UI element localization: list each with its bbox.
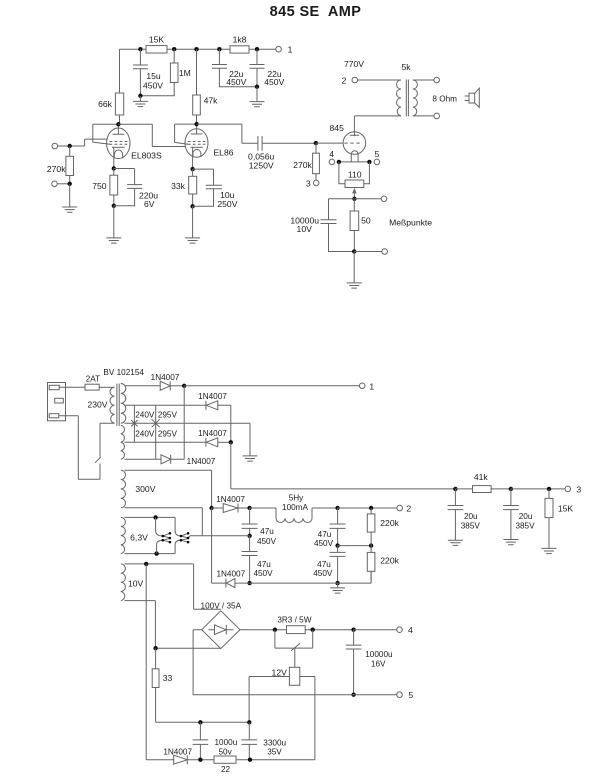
node 10000u top xyxy=(351,628,355,632)
svg-text:22: 22 xyxy=(221,765,231,774)
resistor 41k xyxy=(455,472,511,492)
svg-text:3: 3 xyxy=(576,484,581,494)
ground 20u a xyxy=(448,540,463,545)
svg-text:33: 33 xyxy=(163,673,173,683)
node 47u bottom right xyxy=(335,581,339,585)
svg-text:35V: 35V xyxy=(267,748,282,757)
wire 10V top lead to bridge xyxy=(125,564,221,609)
svg-text:6V: 6V xyxy=(144,199,155,209)
wire 845 filament row xyxy=(339,161,370,163)
svg-text:15K: 15K xyxy=(558,504,574,514)
terminal 5 (psu) xyxy=(397,690,414,700)
wire mid right row xyxy=(338,545,372,547)
wire to terminal 4 xyxy=(354,629,397,631)
ground under 22u xyxy=(250,87,265,107)
svg-text:8 Ohm: 8 Ohm xyxy=(432,95,457,104)
terminal measure a xyxy=(381,196,387,202)
node 6.3V top xyxy=(153,515,157,519)
terminal speaker top xyxy=(434,77,440,83)
node input xyxy=(68,144,72,148)
node 220k top xyxy=(369,506,373,510)
wire HV2 bottom row D xyxy=(125,458,162,460)
svg-text:12V: 12V xyxy=(272,667,288,677)
node 20u b top xyxy=(509,487,513,491)
resistor 3R3/5W xyxy=(277,615,353,633)
svg-text:1N4007: 1N4007 xyxy=(151,373,180,382)
terminal 2 (top) xyxy=(342,59,365,85)
capacitor 20u 385V a xyxy=(448,489,481,540)
svg-text:BV 102154: BV 102154 xyxy=(103,368,144,377)
potentiometer 110 xyxy=(339,162,370,199)
svg-text:100mA: 100mA xyxy=(282,503,308,512)
svg-text:385V: 385V xyxy=(461,522,481,531)
svg-text:220k: 220k xyxy=(380,518,399,528)
node 3R3 right xyxy=(311,628,315,632)
wire D1 to node xyxy=(170,385,184,387)
svg-text:EL803S: EL803S xyxy=(131,151,162,161)
node 22 out xyxy=(248,758,252,762)
svg-text:50: 50 xyxy=(361,215,371,225)
wire contact to coil xyxy=(294,648,296,667)
svg-text:1N4007: 1N4007 xyxy=(198,392,227,401)
svg-text:1: 1 xyxy=(288,45,293,55)
wire D5 to choke xyxy=(238,507,250,509)
svg-text:4: 4 xyxy=(329,149,334,159)
node pin 5 xyxy=(367,160,371,164)
node 15K top xyxy=(547,487,551,491)
terminal 3 (top) xyxy=(306,178,319,188)
wire EL86 anode to coupling cap xyxy=(197,124,258,143)
svg-text:47u: 47u xyxy=(257,560,271,569)
resistor 1k8 xyxy=(230,35,249,54)
wire 6.3V top lead xyxy=(125,516,176,518)
svg-text:2AT: 2AT xyxy=(86,374,100,383)
svg-text:EL86: EL86 xyxy=(213,147,233,157)
svg-text:5k: 5k xyxy=(401,62,411,72)
wire D3 to node xyxy=(218,441,231,443)
tap interconnect verticals xyxy=(134,405,155,459)
bridge rectifier 100V/35A xyxy=(201,601,242,648)
crossing mark x2 xyxy=(152,419,160,427)
transformer core xyxy=(117,384,119,426)
ground under 33k xyxy=(185,206,200,243)
capacitor 22u 450V b xyxy=(250,49,285,87)
wire choke out to terminal 2 xyxy=(338,507,397,509)
node choke in xyxy=(247,506,251,510)
wire row C xyxy=(125,441,206,443)
svg-text:110: 110 xyxy=(348,169,362,179)
svg-text:750: 750 xyxy=(92,181,107,191)
wire to 15K xyxy=(511,488,565,490)
wire 10V bottom lead xyxy=(125,601,156,649)
svg-text:33k: 33k xyxy=(171,181,186,191)
diode D6 1N4007 xyxy=(216,569,245,587)
capacitor 10u 250V xyxy=(193,169,238,209)
svg-text:10000u: 10000u xyxy=(365,650,393,659)
heater link cluster left xyxy=(156,517,172,553)
heater link cluster right xyxy=(175,517,190,553)
ground under 50 xyxy=(347,252,362,289)
wire bridge plus to 3R3 xyxy=(240,629,287,631)
wire negative long vertical xyxy=(146,564,174,760)
wire OPT primary bottom to 845 anode xyxy=(354,115,401,117)
svg-text:845: 845 xyxy=(330,123,345,133)
svg-text:5: 5 xyxy=(408,690,413,700)
svg-text:15u: 15u xyxy=(146,71,161,81)
resistor 220k a xyxy=(367,508,399,546)
mains plug xyxy=(48,383,66,421)
diode D3 1N4007 xyxy=(198,429,227,447)
node 3300u top xyxy=(247,720,251,724)
node pin 4 xyxy=(337,160,341,164)
terminal 3 (psu) xyxy=(565,484,581,494)
wire B+ rail top xyxy=(120,48,276,50)
svg-text:270k: 270k xyxy=(293,160,312,170)
svg-text:47u: 47u xyxy=(317,560,331,569)
svg-text:1N4007: 1N4007 xyxy=(216,495,245,504)
resistor 47k xyxy=(193,49,218,124)
svg-text:1k8: 1k8 xyxy=(233,35,247,45)
relay coil 12V xyxy=(272,667,300,685)
terminal 5 (top) xyxy=(374,149,380,165)
transformer winding HV2 xyxy=(121,425,125,459)
capacitor 47u 450V d xyxy=(313,546,345,584)
node filter mid right xyxy=(335,543,339,547)
wire D7 to 22 xyxy=(187,759,214,761)
capacitor 1000u 50v xyxy=(193,722,238,759)
transformer winding 6.3V xyxy=(121,517,148,553)
ground 20u b xyxy=(503,540,518,545)
wire 66k to anode node xyxy=(118,115,119,124)
svg-text:16V: 16V xyxy=(371,660,386,669)
capacitor 15u 450V xyxy=(133,49,163,96)
wire 47u bottom row xyxy=(235,571,371,583)
diode D4 1N4007 xyxy=(161,455,216,466)
terminal 1 (top) xyxy=(276,45,293,55)
svg-text:295V: 295V xyxy=(158,429,178,438)
resistor 33k xyxy=(171,169,197,206)
svg-text:450V: 450V xyxy=(313,569,333,578)
ground HV center xyxy=(243,456,258,461)
node main B+ xyxy=(209,506,213,510)
node 22u-gnd xyxy=(255,85,259,89)
wire 300V bottom to heater bus xyxy=(125,508,203,536)
wire terminal2 to OPT xyxy=(358,79,401,81)
capacitor 47u 450V b xyxy=(242,536,273,583)
capacitor 220u 6V xyxy=(114,169,158,210)
node 845 grid xyxy=(314,141,318,145)
svg-text:10V: 10V xyxy=(128,578,144,588)
wire node to D5 xyxy=(212,507,224,509)
svg-text:41k: 41k xyxy=(474,472,489,482)
transformer OPT secondary xyxy=(401,62,433,116)
capacitor 47u 450V c xyxy=(314,508,346,548)
node 33 top xyxy=(153,646,157,650)
node input-gnd xyxy=(68,182,72,186)
svg-text:1N4007: 1N4007 xyxy=(198,429,227,438)
svg-text:450V: 450V xyxy=(253,569,273,578)
resistor 750 xyxy=(92,169,117,206)
resistor 1M xyxy=(140,49,190,96)
svg-text:1250V: 1250V xyxy=(249,160,274,170)
capacitor 10000u 16V xyxy=(346,630,393,695)
terminal measure b xyxy=(382,249,388,255)
resistor 270k input xyxy=(47,146,74,184)
resistor 220k b xyxy=(367,546,399,584)
svg-text:250V: 250V xyxy=(217,199,237,209)
transformer OPT core xyxy=(406,80,408,117)
svg-text:770V: 770V xyxy=(344,59,364,69)
node EL86 anode xyxy=(194,122,198,126)
svg-text:4: 4 xyxy=(408,625,413,635)
wire D2 to vertical xyxy=(218,405,231,442)
capacitor 47u 450V a xyxy=(242,508,277,546)
tube EL803S xyxy=(93,124,162,168)
capacitor 22u 450V a xyxy=(212,49,257,87)
node EL86 cathode xyxy=(190,167,194,171)
svg-text:3R3 / 5W: 3R3 / 5W xyxy=(277,615,311,624)
choke 5Hy 100mA xyxy=(250,494,338,523)
svg-text:2: 2 xyxy=(342,75,347,85)
node 50 bottom xyxy=(352,249,356,253)
resistor 22 xyxy=(214,756,315,774)
node 1000u top xyxy=(198,720,202,724)
transformer winding 300V xyxy=(121,470,156,508)
node filter mid left xyxy=(247,534,251,538)
svg-text:66k: 66k xyxy=(98,99,113,109)
node 15u-1M-gnd xyxy=(138,94,142,98)
svg-text:100V / 35A: 100V / 35A xyxy=(201,601,242,610)
terminal input bottom xyxy=(52,181,70,187)
ground under 15u xyxy=(133,96,148,107)
svg-text:47u: 47u xyxy=(260,527,274,536)
wire bridge minus down xyxy=(193,630,202,695)
wire switch to plug xyxy=(59,416,100,480)
wire input to grid xyxy=(58,139,112,146)
node rail-22u-b xyxy=(255,47,259,51)
svg-text:3: 3 xyxy=(306,178,311,188)
svg-text:3300u: 3300u xyxy=(263,738,286,747)
wire node D3 down to bias row xyxy=(231,442,456,489)
wire terminal 5 row xyxy=(193,694,397,696)
resistor 15K psu xyxy=(545,489,573,549)
wire plug to fuse xyxy=(59,386,85,388)
capacitor 0,056u 1250V xyxy=(248,136,316,170)
svg-text:6,3V: 6,3V xyxy=(130,532,148,542)
terminal speaker bottom xyxy=(434,113,440,119)
svg-text:1N4007: 1N4007 xyxy=(216,569,245,578)
svg-text:1N4007: 1N4007 xyxy=(163,747,192,756)
wire coil right lead xyxy=(300,677,315,760)
terminal 4 (top) xyxy=(329,149,335,165)
resistor 33 xyxy=(152,648,249,722)
diode D1 1N4007 xyxy=(151,373,180,390)
tube EL86 xyxy=(175,124,234,169)
crossing mark x1 xyxy=(131,420,137,426)
node cathode sense xyxy=(352,197,356,201)
node choke out xyxy=(335,506,339,510)
resistor 15K xyxy=(146,35,167,54)
svg-text:220k: 220k xyxy=(380,556,399,566)
node D7 out xyxy=(198,758,202,762)
svg-text:450V: 450V xyxy=(226,77,246,87)
svg-text:240V: 240V xyxy=(135,429,155,438)
wire heater bus row xyxy=(190,535,250,537)
svg-text:270k: 270k xyxy=(47,164,66,174)
svg-text:10V: 10V xyxy=(297,224,313,234)
node 33k bottom xyxy=(190,204,194,208)
svg-text:20u: 20u xyxy=(464,512,478,521)
node D1 cathode xyxy=(182,384,186,388)
resistor 50 xyxy=(350,199,371,252)
svg-text:15K: 15K xyxy=(149,35,165,45)
diode D5 1N4007 xyxy=(216,495,245,513)
ground under 750 xyxy=(106,206,121,243)
capacitor 3300u 35V xyxy=(242,722,287,759)
svg-text:845 SE AMP: 845 SE AMP xyxy=(270,4,362,20)
node rail-22u-a xyxy=(217,47,221,51)
svg-text:450V: 450V xyxy=(143,81,163,91)
node 3R3 left xyxy=(273,628,277,632)
terminal input top xyxy=(52,143,58,149)
svg-text:1N4007: 1N4007 xyxy=(187,457,216,466)
transformer winding HV1 xyxy=(121,384,126,424)
svg-text:1M: 1M xyxy=(179,68,191,78)
fuse 2AT xyxy=(85,374,100,390)
svg-text:5: 5 xyxy=(375,149,380,159)
node EL803S cathode xyxy=(112,166,116,170)
node EL803S anode xyxy=(116,122,120,126)
node rail-47k xyxy=(194,47,198,51)
transformer primary 230V xyxy=(110,387,115,423)
terminal 1 (psu) xyxy=(359,381,374,391)
svg-text:2: 2 xyxy=(406,503,411,513)
svg-text:1000u: 1000u xyxy=(215,738,238,747)
wire fuse to primary xyxy=(99,386,114,388)
wire to 845 grid xyxy=(316,142,346,144)
wire 300V top to rectifier node xyxy=(125,470,212,508)
transformer OPT primary xyxy=(397,80,402,116)
svg-text:230V: 230V xyxy=(87,400,107,410)
node 750 bottom xyxy=(112,204,116,208)
wire to measure terminal a xyxy=(354,198,381,200)
terminal 4 (psu) xyxy=(397,625,413,635)
resistor 66k xyxy=(98,93,124,115)
node bias row left xyxy=(453,487,457,491)
svg-text:450V: 450V xyxy=(264,77,284,87)
tube 845 xyxy=(330,116,366,162)
relay contact bypass xyxy=(275,630,313,651)
node 47u bottom left xyxy=(247,581,251,585)
wire B+ down to D6 xyxy=(212,508,226,583)
svg-text:300V: 300V xyxy=(135,484,155,494)
node 10V top xyxy=(144,562,148,566)
capacitor 20u 385V b xyxy=(503,489,535,540)
node 220k mid xyxy=(369,543,373,547)
svg-text:50v: 50v xyxy=(218,747,232,756)
capacitor 10000u 10V xyxy=(290,199,354,252)
svg-text:47k: 47k xyxy=(204,96,219,106)
wire 240V row B to ground stub xyxy=(125,423,251,456)
wire to measure terminal b xyxy=(354,251,382,253)
node 6.3V bottom xyxy=(154,551,158,555)
resistor 270k 845 grid leak xyxy=(293,143,319,180)
wire 6.3V bottom lead xyxy=(125,553,176,555)
svg-text:5Hy: 5Hy xyxy=(289,494,304,503)
ground under input xyxy=(62,184,77,212)
wire coil left lead xyxy=(249,677,289,723)
ground filter xyxy=(330,583,345,593)
wire primary bottom to switch xyxy=(100,423,115,456)
ground 15K xyxy=(542,548,557,553)
wire 295V tap row A xyxy=(125,404,206,406)
node rail-1M xyxy=(172,47,176,51)
svg-text:450V: 450V xyxy=(257,537,277,546)
node 10000u bottom xyxy=(351,693,355,697)
wire bridge bottom AC row xyxy=(156,647,221,649)
wire 66k drop xyxy=(119,49,121,93)
svg-text:295V: 295V xyxy=(158,410,178,419)
diode D7 1N4007 xyxy=(163,747,192,764)
svg-text:20u: 20u xyxy=(519,512,533,521)
switch mains xyxy=(95,457,101,480)
wire rail to PSU terminal 1 xyxy=(184,385,359,387)
transformer winding 10V xyxy=(121,564,144,601)
svg-text:1: 1 xyxy=(369,381,374,391)
wire EL803S anode to EL86 grid xyxy=(118,124,190,146)
wire HV1 top lead xyxy=(125,385,161,387)
svg-text:450V: 450V xyxy=(314,539,334,548)
node rail-15u xyxy=(138,47,142,51)
node D3 out xyxy=(229,440,233,444)
svg-text:47u: 47u xyxy=(318,530,332,539)
speaker 8 Ohm xyxy=(432,88,479,107)
svg-text:Meßpunkte: Meßpunkte xyxy=(389,218,432,228)
svg-text:385V: 385V xyxy=(515,522,535,531)
wire D4 to B+ vertical xyxy=(171,386,185,460)
svg-text:240V: 240V xyxy=(135,410,155,419)
terminal 2 (psu) xyxy=(397,503,412,513)
diode D2 1N4007 xyxy=(198,392,227,410)
